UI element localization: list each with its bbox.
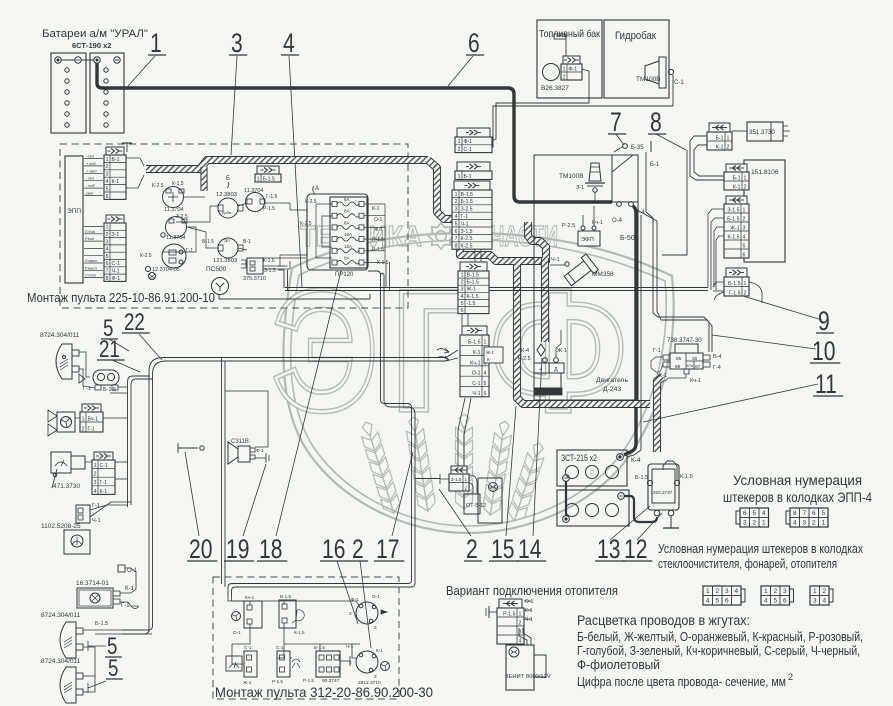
svg-text:К-2.5: К-2.5 [300, 221, 312, 227]
svg-text:3: 3 [374, 625, 377, 630]
svg-text:5: 5 [752, 510, 756, 517]
numbering block wiper [741, 589, 745, 602]
harness band center S [460, 222, 546, 261]
svg-text:З-1.5: З-1.5 [461, 229, 473, 235]
svg-text:16А: 16А [344, 244, 352, 249]
connector Б-1.5/Г-1.5 bottom [724, 268, 749, 296]
harness stub 11.3704 [200, 167, 207, 191]
button 121.3803 [218, 238, 238, 258]
svg-text:Батареи а/м "УРАЛ": Батареи а/м "УРАЛ" [42, 28, 148, 40]
svg-text:С-1: С-1 [244, 645, 252, 650]
ЭПП X1 pin leads [84, 158, 103, 160]
relay 738 terminals [663, 355, 670, 360]
svg-text:Б-1.5: Б-1.5 [635, 475, 648, 481]
wires 151 6-pin [708, 209, 724, 287]
svg-text:А: А [315, 186, 319, 192]
numbering block 8765-4321 [786, 511, 790, 524]
svg-text:Б-35: Б-35 [631, 145, 644, 151]
svg-text:12.3803: 12.3803 [216, 192, 237, 198]
svg-text:6: 6 [743, 510, 747, 517]
svg-text:Б-1.5: Б-1.5 [263, 176, 275, 182]
svg-text:8А: 8А [344, 220, 350, 225]
svg-text:Б-1.5: Б-1.5 [468, 340, 480, 346]
switch 12.3704-05 [162, 244, 186, 268]
svg-text:К-1: К-1 [733, 184, 741, 190]
svg-text:Р-1.5: Р-1.5 [372, 237, 384, 243]
svg-text:свет: свет [86, 192, 94, 196]
svg-text:Ж-1: Ж-1 [557, 348, 567, 354]
fuel tank box Топливный бак [537, 20, 602, 98]
svg-text:1: 1 [461, 273, 464, 279]
svg-text:В-1: В-1 [243, 239, 251, 245]
svg-text:ОТ-5-12: ОТ-5-12 [466, 503, 486, 509]
svg-text:С-1: С-1 [100, 463, 108, 469]
ПР120 wires down [385, 262, 387, 288]
svg-text:ЭПП: ЭПП [67, 208, 81, 215]
svg-text:Б-1.5: Б-1.5 [727, 216, 739, 222]
aux box Ж-1 [484, 347, 503, 363]
plug О-1 [118, 565, 125, 572]
ЭПП X2 pin leads [84, 226, 103, 228]
svg-text:4: 4 [762, 510, 766, 517]
terminal Б-35 [623, 144, 628, 149]
svg-text:З-2.5: З-2.5 [176, 214, 188, 220]
wire 151 right loop [749, 282, 762, 303]
svg-text:Б-50: Б-50 [620, 235, 635, 242]
svg-text:4: 4 [106, 247, 109, 253]
svg-text:2: 2 [752, 520, 756, 527]
wire headlamp-horn [79, 352, 90, 377]
svg-text:7: 7 [610, 108, 622, 138]
switch wiper box312 [244, 651, 257, 677]
svg-text:351.3730: 351.3730 [749, 129, 775, 136]
svg-text:1: 1 [82, 416, 85, 422]
wire pair down to pult312 [221, 362, 223, 584]
svg-text:Вч-1: Вч-1 [88, 416, 99, 422]
wire main left vertical to lamps [148, 629, 150, 632]
device 151.8106 [744, 160, 785, 262]
svg-text:1: 1 [727, 135, 730, 141]
svg-text:4: 4 [764, 598, 768, 605]
svg-text:6: 6 [725, 598, 729, 605]
svg-text:1300.3737: 1300.3737 [651, 490, 673, 495]
relay 738 wires [651, 357, 663, 372]
ЭПП connector X2 [104, 215, 126, 282]
svg-text:6: 6 [812, 510, 816, 517]
svg-text:1: 1 [106, 225, 109, 231]
svg-text:ПР120: ПР120 [335, 272, 354, 278]
svg-text:8: 8 [455, 244, 458, 250]
wires pult interconnect [184, 196, 205, 198]
svg-text:5: 5 [821, 510, 825, 517]
relay ground [670, 516, 672, 528]
numbering block heater [829, 589, 833, 602]
svg-text:Л.бо6: Л.бо6 [85, 230, 95, 234]
heater unit ZENIT [506, 645, 534, 690]
svg-text:14: 14 [518, 535, 541, 565]
svg-text:5: 5 [108, 655, 118, 682]
svg-text:Условная нумерация штекеров в: Условная нумерация штекеров в колодках [658, 542, 864, 556]
svg-text:30: 30 [692, 356, 698, 362]
svg-text:5: 5 [461, 301, 464, 307]
svg-text:О-1: О-1 [374, 217, 383, 223]
svg-text:Ф-1: Ф-1 [256, 448, 264, 454]
svg-text:К-2.5: К-2.5 [461, 236, 473, 242]
svg-text:Г-1: Г-1 [88, 426, 96, 432]
rotary switch Ф-1 box312 [356, 602, 378, 624]
svg-text:Р-1.5: Р-1.5 [372, 247, 384, 253]
switch washer box312 [277, 651, 290, 677]
svg-text:К-2.5: К-2.5 [152, 183, 164, 189]
svg-text:- пит: - пит [86, 177, 94, 181]
svg-text:6: 6 [106, 194, 109, 200]
connector 8-pin center [452, 181, 492, 250]
svg-text:8: 8 [793, 510, 797, 517]
battery GB2 [90, 53, 124, 133]
svg-text:ЭФП: ЭФП [581, 237, 594, 243]
connector 151 6-pin [724, 196, 749, 258]
device 351.3730 [747, 122, 783, 141]
svg-text:2: 2 [812, 520, 816, 527]
svg-text:З-1: З-1 [576, 185, 584, 191]
svg-text:Б-1.5: Б-1.5 [95, 621, 108, 627]
numbering block lamps [790, 589, 794, 602]
svg-text:Ч-1: Ч-1 [461, 221, 469, 227]
svg-text:Б-1.5: Б-1.5 [103, 387, 116, 393]
connector 151 upper [724, 164, 749, 190]
svg-text:С-1: С-1 [112, 261, 120, 267]
wire starter Ж-1 [556, 330, 561, 357]
svg-text:2: 2 [563, 74, 566, 80]
svg-text:1: 1 [150, 29, 162, 59]
switch disconnect [177, 443, 179, 453]
svg-text:8724.304/011: 8724.304/011 [41, 658, 81, 665]
svg-text:Б: Б [226, 176, 230, 182]
svg-text:3: 3 [743, 520, 747, 527]
wires mid headlamp [83, 629, 148, 631]
svg-text:8724.304/011: 8724.304/011 [41, 612, 81, 619]
svg-text:Монтаж пульта 312-20-86.90.200: Монтаж пульта 312-20-86.90.200-30 [215, 684, 433, 700]
generator [612, 155, 638, 202]
svg-text:1: 1 [458, 139, 461, 145]
svg-text:19: 19 [226, 535, 249, 565]
svg-text:Вариант подключения отопителя: Вариант подключения отопителя [446, 583, 618, 598]
svg-text:Б-1: Б-1 [650, 162, 660, 168]
wire fuel sender to connector Ф-1 [491, 69, 589, 141]
connector to 351.3730 [707, 123, 732, 150]
svg-text:1: 1 [813, 588, 817, 595]
fuse block ПР120 [307, 194, 368, 270]
svg-text:К-1: К-1 [100, 489, 108, 495]
svg-text:Б-1: Б-1 [732, 175, 740, 181]
fan connector [80, 404, 103, 432]
wire battery feed elbow to Б-50 [624, 206, 636, 455]
svg-text:Б-1.5: Б-1.5 [202, 239, 214, 245]
svg-text:Ч-1: Ч-1 [92, 518, 101, 524]
svg-text:5: 5 [106, 186, 109, 192]
watermark shield logo [283, 233, 673, 533]
svg-text:Г-1: Г-1 [121, 603, 130, 609]
sensor ТМ100В engine [589, 163, 601, 181]
svg-text:Гидробак: Гидробак [615, 30, 656, 42]
svg-text:11.3704: 11.3704 [166, 235, 185, 241]
wire ТМ100В engine [594, 192, 596, 202]
svg-text:Двигатель: Двигатель [596, 377, 629, 384]
svg-text:К-1.5: К-1.5 [263, 258, 275, 264]
wires 351 connector left [690, 136, 724, 180]
svg-text:3: 3 [461, 287, 464, 293]
oil pressure sensor ММ358 [562, 254, 599, 289]
heater ground [489, 611, 497, 613]
svg-text:6: 6 [484, 391, 487, 397]
svg-text:375.3710: 375.3710 [243, 276, 266, 282]
svg-text:3: 3 [374, 674, 377, 679]
svg-text:6СТ-190 х2: 6СТ-190 х2 [72, 41, 111, 50]
svg-text:8: 8 [106, 276, 109, 282]
svg-text:ТМ100В: ТМ100В [559, 173, 584, 180]
svg-text:5: 5 [773, 598, 777, 605]
svg-text:Г-1: Г-1 [653, 348, 661, 354]
svg-text:+ свет: + свет [86, 169, 97, 173]
svg-text:Ж-1: Ж-1 [657, 373, 667, 379]
svg-text:Арбм: Арбм [222, 211, 232, 215]
switch light box312 [279, 600, 296, 628]
svg-text:7: 7 [455, 236, 458, 242]
svg-text:3: 3 [94, 480, 97, 486]
svg-text:7: 7 [802, 510, 806, 517]
svg-text:Р-1.5: Р-1.5 [503, 611, 516, 617]
svg-text:1: 1 [106, 157, 109, 163]
wire pair mid vertical left (up to pult) [283, 270, 285, 288]
wires cab lamp [120, 568, 136, 593]
svg-text:12: 12 [624, 535, 647, 565]
svg-text:2: 2 [715, 588, 719, 595]
svg-text:Кч-1: Кч-1 [245, 595, 255, 600]
svg-text:2: 2 [519, 620, 522, 626]
svg-text:К-1: К-1 [716, 144, 724, 150]
connector Ф-1/С-1 [455, 128, 492, 153]
svg-text:1: 1 [484, 340, 487, 346]
dashed enclosure Монтаж пульта 225-10-86.91.200-10 [60, 144, 408, 308]
svg-text:13: 13 [597, 535, 620, 565]
svg-text:8724.304/011: 8724.304/011 [40, 332, 80, 339]
svg-text:5: 5 [455, 221, 458, 227]
starter [537, 344, 545, 356]
svg-text:О-1: О-1 [525, 599, 534, 605]
engine box Двигатель Д-243 [534, 155, 638, 400]
svg-text:Ч-1: Ч-1 [112, 269, 120, 275]
svg-text:2: 2 [788, 672, 793, 682]
svg-text:11: 11 [815, 370, 837, 400]
svg-text:1: 1 [706, 588, 710, 595]
temperature sender ТМ100В hydro [645, 61, 659, 84]
svg-text:16: 16 [322, 535, 345, 565]
svg-text:6: 6 [106, 261, 109, 267]
starter relay 1300.3737 [648, 464, 679, 510]
svg-text:2: 2 [465, 485, 468, 490]
wire pair Б-1/Г-4 down [646, 212, 709, 352]
svg-text:Б-1.5: Б-1.5 [467, 280, 479, 286]
wire ОТ-5-12 [469, 475, 477, 494]
svg-text:2: 2 [773, 588, 777, 595]
wire С311В feed [225, 391, 268, 447]
svg-text:1: 1 [257, 176, 260, 182]
terminal stub С311В [255, 457, 266, 459]
svg-text:1: 1 [764, 588, 768, 595]
svg-text:Г-4: Г-4 [713, 365, 721, 371]
svg-text:2: 2 [106, 232, 109, 238]
svg-text:С-1: С-1 [464, 147, 472, 153]
svg-text:3: 3 [813, 598, 817, 605]
wire battery2 to relay [624, 496, 657, 522]
svg-text:4: 4 [822, 598, 826, 605]
svg-text:- поб: - поб [86, 184, 95, 188]
relay 11.3704 middle [166, 217, 187, 238]
node Г-4 [629, 202, 634, 207]
washer connector [76, 505, 90, 523]
svg-text:6: 6 [783, 598, 787, 605]
heater connector [497, 599, 524, 644]
connector Б-1 single [455, 162, 492, 180]
svg-text:2: 2 [349, 611, 352, 616]
svg-text:Д: Д [554, 367, 558, 373]
svg-text:Ж-1: Ж-1 [374, 227, 383, 233]
svg-text:С-1: С-1 [472, 381, 480, 387]
svg-text:Ж-1: Ж-1 [467, 287, 477, 293]
svg-text:В-4: В-4 [713, 354, 722, 360]
svg-text:ЗЕНИТ 8000/12V: ЗЕНИТ 8000/12V [505, 674, 551, 680]
svg-text:З-2.5: З-2.5 [461, 207, 473, 213]
harness band to starter [541, 258, 549, 342]
svg-text:Ф-1: Ф-1 [112, 276, 121, 282]
wire ММ358 [550, 264, 565, 266]
svg-text:5: 5 [715, 598, 719, 605]
fuel level sender В26.3827 [543, 64, 560, 81]
svg-text:1: 1 [519, 611, 522, 617]
svg-text:У.топл: У.топл [85, 274, 96, 278]
svg-text:4: 4 [793, 520, 797, 527]
svg-text:Р-2.5: Р-2.5 [562, 223, 575, 229]
svg-text:9: 9 [818, 307, 830, 337]
wire pair W-left round corner [149, 358, 446, 630]
wire ПС500 [219, 294, 370, 299]
svg-text:Ф-1: Ф-1 [569, 66, 578, 72]
wires between center connectors [461, 313, 463, 326]
svg-text:121.3803: 121.3803 [213, 258, 237, 264]
svg-text:8А: 8А [344, 256, 350, 261]
svg-text:2: 2 [743, 216, 746, 222]
gauge connector [92, 452, 115, 495]
svg-text:ПС500: ПС500 [206, 266, 227, 273]
svg-text:20: 20 [189, 535, 212, 565]
svg-text:2: 2 [744, 290, 747, 296]
horn [93, 370, 119, 385]
svg-text:8А: 8А [344, 197, 350, 202]
svg-text:К-1.5: К-1.5 [294, 630, 305, 635]
wires bottom right connector [713, 282, 724, 287]
svg-text:Ж-1: Ж-1 [486, 350, 495, 355]
dashed enclosure Монтаж пульта 312-20-86.90.200-30 [213, 577, 399, 699]
svg-text:Д-243: Д-243 [603, 386, 621, 393]
svg-text:Э: Э [272, 255, 378, 447]
svg-text:К-1: К-1 [372, 206, 380, 212]
svg-text:Б-1.5: Б-1.5 [728, 281, 740, 287]
wires box312 [228, 596, 250, 605]
hydro tank box Гидробак [604, 20, 669, 98]
svg-text:1: 1 [743, 207, 746, 213]
svg-text:2: 2 [822, 588, 826, 595]
svg-text:В-1.5: В-1.5 [461, 192, 474, 198]
svg-text:Г-1: Г-1 [461, 214, 469, 220]
glow plug ЭФП [578, 231, 600, 246]
svg-text:Г-1.5: Г-1.5 [266, 194, 278, 200]
svg-text:В26.3827: В26.3827 [541, 85, 569, 92]
svg-text:4: 4 [94, 489, 97, 495]
svg-text:ММ358: ММ358 [592, 271, 614, 278]
svg-text:К-: К- [487, 357, 492, 362]
svg-text:1: 1 [455, 192, 458, 198]
svg-text:3: 3 [231, 29, 243, 59]
terminal near 90.3747 [342, 660, 350, 662]
svg-text:О-4: О-4 [612, 218, 623, 224]
svg-text:Г-1.5: Г-1.5 [729, 290, 741, 296]
block 90.3747 [316, 651, 340, 677]
svg-text:Р-1.5: Р-1.5 [263, 206, 275, 212]
wire pair mid horizontal [285, 287, 708, 289]
svg-text:1: 1 [821, 520, 825, 527]
buzzer 375.3710 [247, 258, 263, 274]
svg-text:15: 15 [491, 535, 514, 565]
terminal T above X1 [126, 143, 128, 152]
svg-text:стеклоочистителя, фонарей, ото: стеклоочистителя, фонарей, отопителя [658, 557, 837, 571]
svg-text:4: 4 [455, 214, 458, 220]
ЭПП connector X1 [104, 147, 126, 200]
wire drop from 8 [662, 150, 687, 255]
harness band to center connectors [428, 160, 452, 219]
svg-text:3: 3 [106, 239, 109, 245]
svg-text:18: 18 [259, 535, 282, 565]
svg-text:К-1.5: К-1.5 [728, 234, 740, 240]
svg-text:1102.5208-25: 1102.5208-25 [41, 523, 81, 530]
svg-text:16А: 16А [344, 232, 352, 237]
svg-text:Р-1.5: Р-1.5 [272, 679, 283, 684]
svg-text:87а: 87а [687, 363, 694, 368]
svg-text:Ф-1: Ф-1 [464, 139, 473, 145]
wire main battery feed (thick) [97, 63, 612, 202]
svg-text:- пит: - пит [86, 155, 94, 159]
svg-text:3: 3 [783, 588, 787, 595]
svg-text:10: 10 [812, 337, 835, 367]
svg-text:Ч-1: Ч-1 [551, 257, 560, 263]
wire К-1.5 relay [663, 461, 677, 480]
svg-text:4: 4 [283, 29, 295, 59]
svg-text:К-1: К-1 [525, 608, 533, 614]
svg-text:7: 7 [106, 269, 109, 275]
svg-text:З-1: З-1 [112, 232, 120, 238]
wire left bus pair [128, 376, 134, 507]
connector 6-pin lower [460, 326, 489, 397]
svg-text:Кч-1: Кч-1 [470, 360, 480, 366]
svg-text:ТМ100В: ТМ100В [636, 76, 661, 83]
svg-text:2: 2 [82, 426, 85, 432]
heater plug ОТ-5-12 [464, 494, 480, 514]
svg-text:К-1.5: К-1.5 [467, 294, 479, 300]
switch fan box312 [244, 601, 262, 628]
wires X1 to harness [126, 158, 144, 166]
svg-text:ЗСТ-215 х2: ЗСТ-215 х2 [561, 453, 597, 463]
svg-text:К-2.5: К-2.5 [140, 253, 152, 259]
svg-text:К-1.5: К-1.5 [680, 474, 693, 480]
